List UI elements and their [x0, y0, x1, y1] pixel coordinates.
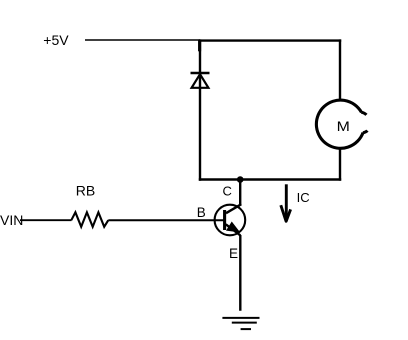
svg-text:+5V: +5V	[43, 32, 69, 48]
svg-text:E: E	[229, 246, 238, 261]
wire right vertical lower (motor bottom to loop)	[339, 149, 341, 181]
transistor Q1 base bar	[223, 210, 226, 230]
wire top horizontal of loop	[199, 39, 341, 41]
transistor Q1 collector diagonal	[226, 204, 241, 213]
wire +5V to top-left corner	[85, 39, 200, 41]
diode D1 cathode bar	[191, 72, 210, 74]
wire emitter vertical to ground	[239, 235, 241, 311]
motor M1 circle with brush gap	[316, 100, 363, 148]
diode D1 triangle	[192, 74, 209, 88]
transistor Q1 emitter arrowhead	[227, 223, 239, 232]
current IC arrow shaft	[285, 184, 288, 221]
resistor RB zigzag	[71, 212, 108, 227]
junction node C dot	[237, 176, 244, 183]
ground bar 2	[232, 322, 257, 324]
transistor Q1 circle	[215, 205, 246, 236]
svg-text:VIN: VIN	[0, 212, 23, 228]
svg-text:C: C	[223, 183, 232, 198]
wire bottom horizontal of loop	[199, 178, 341, 180]
svg-text:B: B	[197, 205, 206, 220]
motor M1 brush hook top	[361, 112, 366, 115]
svg-text:M: M	[337, 119, 350, 135]
svg-text:RB: RB	[76, 183, 95, 199]
motor M1 brush hook bottom	[363, 131, 368, 133]
ground bar 1	[222, 317, 259, 319]
wire left vertical of loop (through diode)	[199, 39, 201, 180]
wire collector vertical	[239, 180, 241, 206]
transistor Q1 emitter diagonal	[226, 224, 241, 235]
ground bar 3	[241, 328, 251, 330]
svg-text:IC: IC	[297, 190, 310, 205]
wire resistor to base	[108, 219, 224, 221]
wire corner stub at top-left junction	[198, 40, 201, 52]
current IC arrowhead	[281, 205, 291, 221]
wire right vertical upper (loop to motor top)	[339, 39, 341, 100]
wire VIN to resistor	[20, 219, 72, 221]
